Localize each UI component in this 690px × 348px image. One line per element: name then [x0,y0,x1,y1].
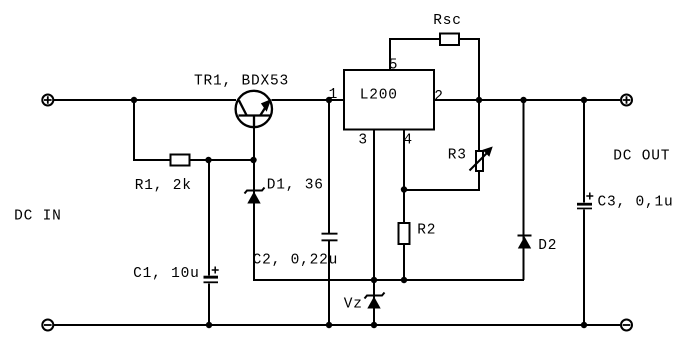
svg-text:D1, 36: D1, 36 [267,178,324,194]
svg-text:TR1, BDX53: TR1, BDX53 [194,74,289,90]
svg-text:D2: D2 [538,238,557,254]
svg-text:4: 4 [403,132,413,148]
svg-text:C1, 10u: C1, 10u [133,266,200,282]
svg-text:R3: R3 [448,148,467,164]
svg-text:3: 3 [358,132,368,148]
svg-text:DC OUT: DC OUT [613,148,670,164]
svg-text:C2, 0,22u: C2, 0,22u [253,253,339,269]
svg-text:DC IN: DC IN [14,209,62,225]
svg-text:5: 5 [389,57,399,73]
svg-text:2: 2 [434,89,444,105]
svg-text:Rsc: Rsc [433,13,462,29]
svg-text:1: 1 [329,87,339,103]
svg-text:R1, 2k: R1, 2k [135,178,192,194]
svg-text:R2: R2 [417,223,436,239]
svg-text:C3, 0,1u: C3, 0,1u [598,194,674,210]
svg-text:Vz: Vz [344,296,363,312]
svg-text:L200: L200 [360,88,398,104]
